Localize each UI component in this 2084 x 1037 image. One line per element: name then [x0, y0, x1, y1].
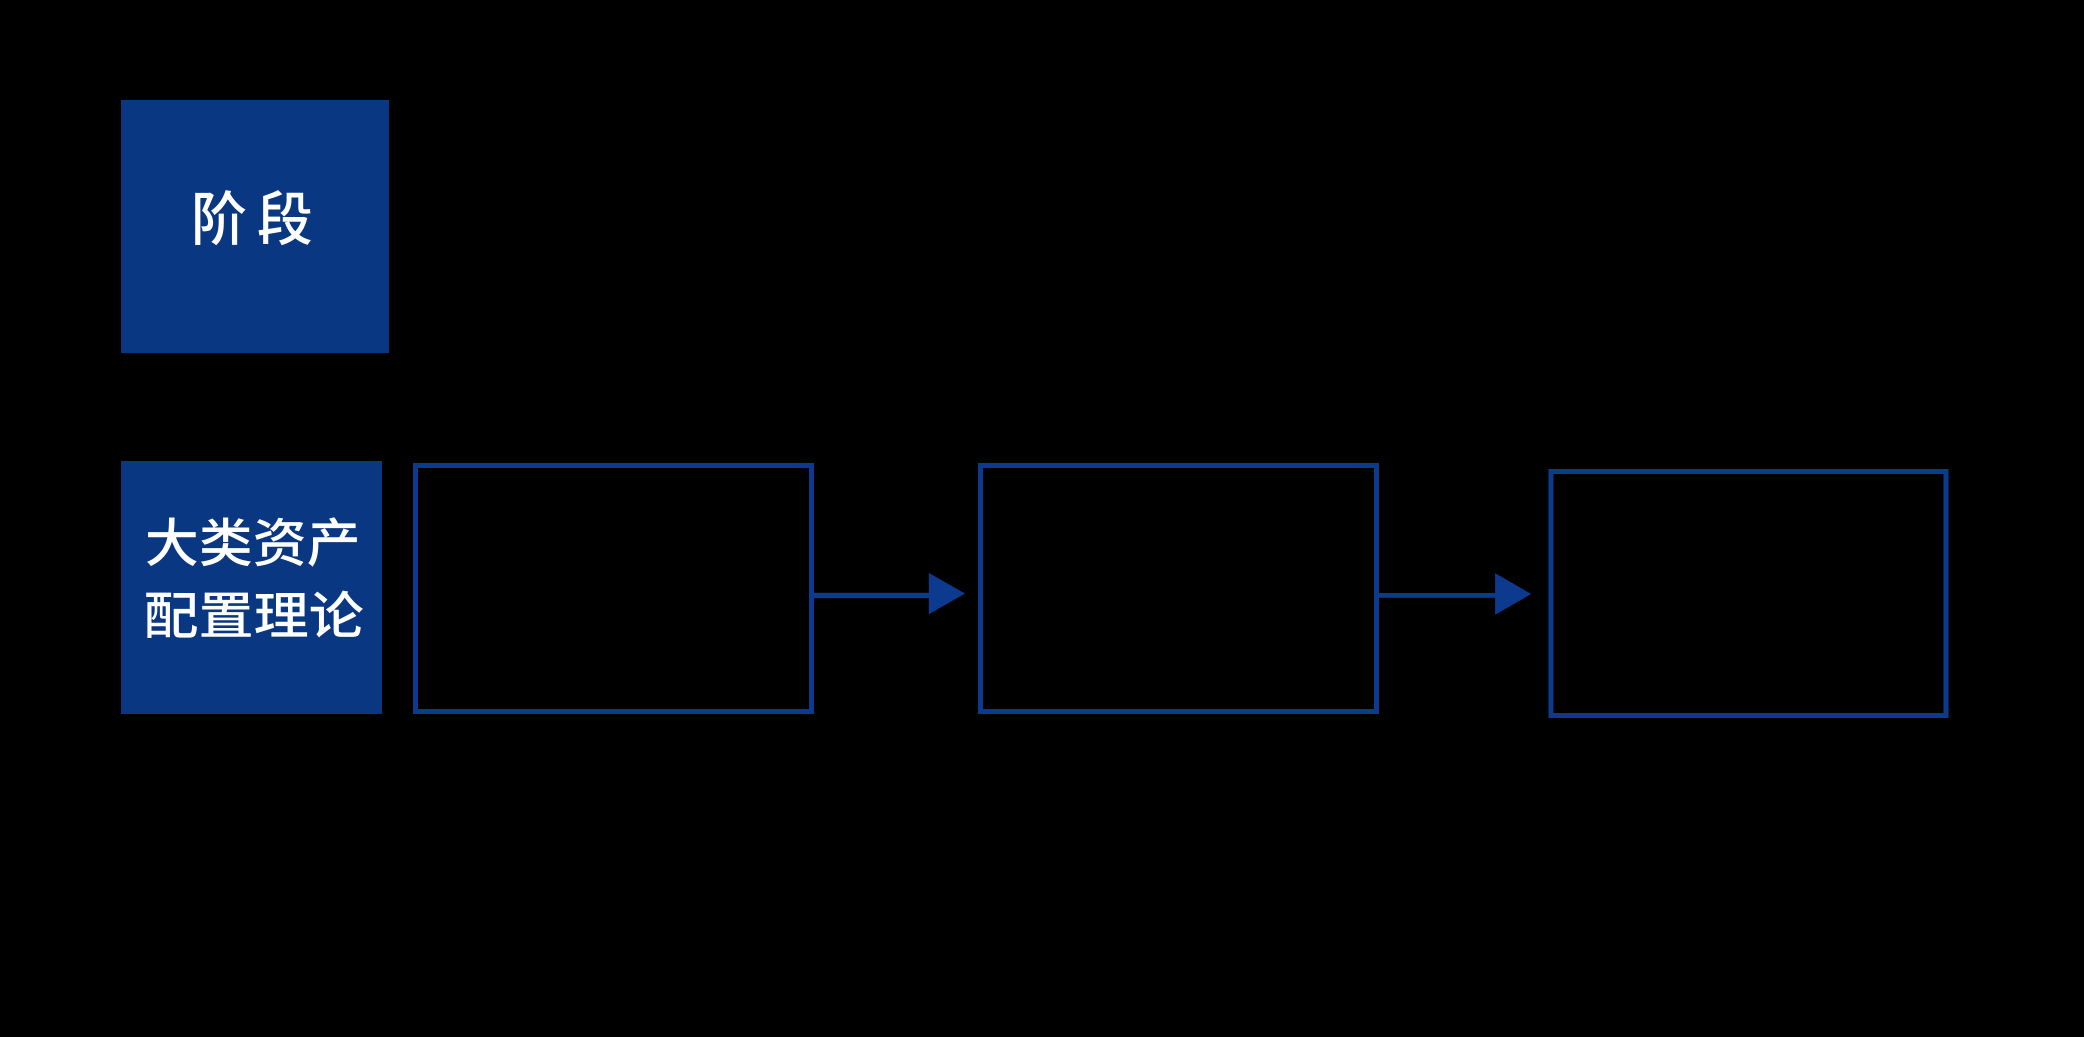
row header box: 大类资产配置理论 (asset allocation theory)	[121, 461, 382, 714]
arrow 2 head	[1495, 573, 1531, 615]
row header box: 阶段 (stage)	[121, 100, 389, 353]
flow box 1 (outlined, empty)	[416, 466, 812, 712]
arrow 2 shaft	[1376, 593, 1502, 598]
arrow 1 shaft	[811, 593, 935, 598]
flow box 3 (outlined, empty)	[1551, 472, 1946, 716]
flow box 2 (outlined, empty)	[981, 466, 1377, 712]
header text line 1 大类资产	[147, 517, 357, 566]
arrow 1 head	[929, 573, 965, 614]
header text line 2 配置理论	[146, 591, 363, 638]
header text 阶段	[195, 190, 311, 245]
